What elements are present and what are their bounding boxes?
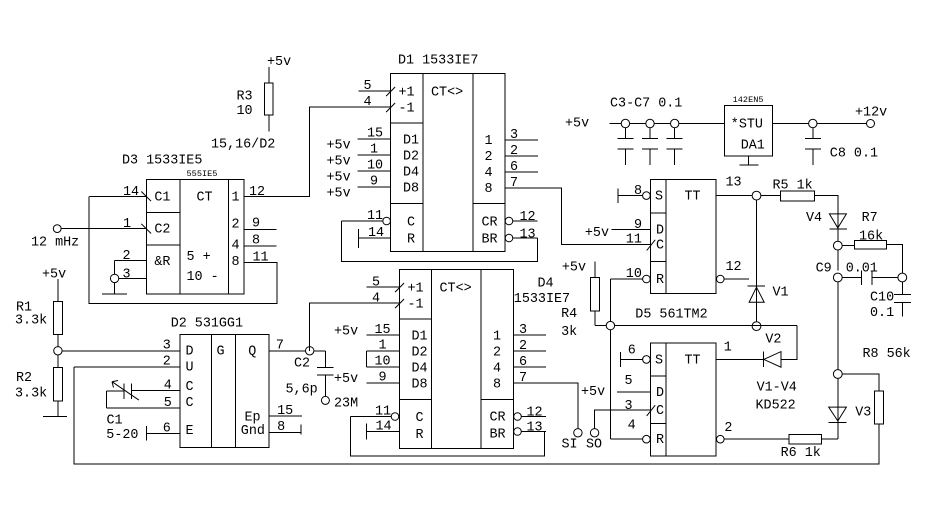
- svg-text:CT<>: CT<>: [431, 86, 463, 101]
- D1 output 3 wire: [505, 139, 538, 141]
- svg-text:D4: D4: [412, 361, 428, 376]
- D5.1 pin 8 S input: [618, 188, 643, 203]
- D4 pin 12 CR output: [514, 413, 522, 421]
- capacitor C3: [621, 119, 629, 127]
- svg-text:-1: -1: [408, 298, 424, 313]
- svg-text:2: 2: [485, 150, 493, 165]
- ground: [43, 415, 67, 417]
- node junction C8: [809, 119, 817, 127]
- trimmer arrow: [112, 381, 139, 401]
- D5.1 pin 10 R input: [610, 278, 642, 280]
- resistor R6 1k: [789, 435, 822, 444]
- svg-text:V1: V1: [773, 286, 789, 301]
- svg-text:7: 7: [510, 176, 518, 191]
- D3 output 8 wire: [244, 245, 277, 247]
- svg-text:4: 4: [164, 379, 172, 394]
- svg-text:10: 10: [626, 267, 642, 282]
- svg-text:12: 12: [726, 260, 742, 275]
- svg-text:R3: R3: [237, 90, 253, 105]
- svg-text:6: 6: [519, 355, 527, 370]
- node junction 13/V1: [752, 191, 761, 200]
- svg-text:R: R: [656, 433, 664, 448]
- svg-text:D2: D2: [412, 345, 428, 360]
- svg-text:*STU: *STU: [731, 118, 763, 133]
- svg-text:C1: C1: [107, 414, 123, 429]
- svg-text:3.3k: 3.3k: [15, 314, 47, 329]
- wire V4 node down to R8 node: [837, 282, 839, 407]
- svg-text:6: 6: [163, 422, 171, 437]
- svg-text:1: 1: [493, 330, 501, 345]
- svg-text:8: 8: [634, 184, 642, 199]
- svg-text:U: U: [186, 361, 194, 376]
- svg-text:+5v: +5v: [42, 268, 66, 283]
- svg-text:D: D: [656, 224, 664, 239]
- svg-text:-1: -1: [399, 102, 415, 117]
- node junction V1 bottom: [752, 322, 761, 331]
- svg-text:R4: R4: [561, 307, 577, 322]
- svg-text:15: 15: [367, 127, 383, 142]
- svg-text:R: R: [416, 428, 424, 443]
- svg-text:D1: D1: [403, 133, 419, 148]
- svg-text:4: 4: [372, 292, 380, 307]
- svg-text:12: 12: [527, 406, 543, 421]
- capacitor C4: [646, 119, 654, 127]
- DA1 ground pin: [740, 156, 759, 165]
- svg-text:+1: +1: [399, 86, 415, 101]
- svg-text:+12v: +12v: [855, 106, 887, 121]
- svg-text:2: 2: [493, 346, 501, 361]
- D3 pin 14 C1 input wire: [90, 195, 147, 197]
- D4 output 3 wire: [514, 334, 547, 336]
- svg-text:D3 1533IE5: D3 1533IE5: [122, 154, 202, 169]
- D3 pin 3 wire: [115, 277, 147, 279]
- svg-text:Gnd: Gnd: [241, 424, 265, 439]
- capacitor C8 0.1: [805, 128, 821, 165]
- D4 pin 5 +1 input: [367, 286, 400, 288]
- svg-text:9: 9: [370, 175, 378, 190]
- wire R5 to V4: [814, 196, 838, 214]
- svg-text:+5v: +5v: [327, 139, 351, 154]
- svg-text:5: 5: [164, 396, 172, 411]
- wire R6 to V3: [822, 438, 838, 440]
- svg-text:D1 1533IE7: D1 1533IE7: [398, 54, 478, 69]
- resistor R1 3.3k: [54, 301, 63, 334]
- wire to R8: [842, 374, 879, 391]
- wire R1/R2 node to D2 pin 3: [62, 350, 180, 352]
- resistor R8 56k: [875, 391, 884, 424]
- diode V3: [829, 407, 847, 421]
- resistor R3 10: [265, 83, 273, 115]
- svg-text:C1: C1: [154, 191, 170, 206]
- D3 output 9 wire: [244, 229, 277, 231]
- svg-text:G: G: [217, 345, 225, 360]
- svg-text:5: 5: [625, 374, 633, 389]
- wire: [594, 262, 596, 278]
- D4 pin 13 BR output: [514, 428, 522, 436]
- terminal +12v: [867, 120, 875, 128]
- D3 pin 1 C2 input wire: [61, 228, 147, 230]
- wire: [268, 115, 270, 131]
- svg-text:1: 1: [379, 339, 387, 354]
- resistor R5 1k: [780, 191, 814, 201]
- wire: [57, 279, 59, 301]
- flip-flop D5.1 (upper): [651, 180, 717, 294]
- svg-text:D4: D4: [538, 277, 554, 292]
- svg-text:SI: SI: [562, 438, 578, 453]
- svg-text:C2: C2: [294, 357, 310, 372]
- svg-text:KD522: KD522: [756, 399, 796, 414]
- D2 pin 15 Ep wire: [269, 415, 302, 417]
- svg-text:E: E: [186, 424, 194, 439]
- svg-text:2: 2: [519, 339, 527, 354]
- dynamic input slash: [647, 240, 656, 251]
- D1 pin 13 BR output: [505, 234, 513, 242]
- svg-text:R7: R7: [862, 211, 878, 226]
- svg-text:8: 8: [252, 234, 260, 249]
- terminal SO: [590, 429, 598, 437]
- D3 output 11 feedback wire to C1: [89, 196, 277, 303]
- D5.1 pin 9 D input: [612, 229, 651, 231]
- svg-text:C3-C7 0.1: C3-C7 0.1: [610, 97, 682, 112]
- svg-text:8: 8: [232, 255, 240, 270]
- terminal 12 mHz: [53, 225, 61, 233]
- node junction R8: [833, 370, 842, 379]
- wire: [837, 229, 839, 270]
- svg-text:6: 6: [510, 160, 518, 175]
- node junction R1/R2: [54, 347, 62, 355]
- svg-text:SO: SO: [586, 438, 602, 453]
- svg-text:+5v: +5v: [585, 226, 609, 241]
- svg-text:R: R: [656, 273, 664, 288]
- svg-text:V4: V4: [806, 211, 822, 226]
- D4 pin 1 D2 input: [367, 350, 400, 352]
- D1 pin 12 CR output: [505, 217, 513, 225]
- D2 pin 2 wire to bottom rail: [74, 367, 879, 464]
- svg-text:9: 9: [252, 217, 260, 232]
- svg-text:+5v: +5v: [334, 325, 358, 340]
- D1 output 7 wire to D5 C input: [505, 188, 651, 245]
- svg-text:2: 2: [510, 144, 518, 159]
- diode V2: [762, 352, 764, 368]
- wire V2 to R-pull rail: [595, 311, 797, 359]
- node junction R4 rail: [606, 321, 614, 329]
- svg-text:V2: V2: [765, 333, 781, 348]
- svg-text:+5v: +5v: [267, 55, 291, 70]
- wire to R7: [842, 245, 854, 247]
- svg-text:Q: Q: [248, 345, 256, 360]
- svg-text:5: 5: [364, 79, 372, 94]
- svg-text:1: 1: [724, 341, 732, 356]
- svg-text:3: 3: [510, 128, 518, 143]
- svg-text:+5v: +5v: [581, 385, 605, 400]
- dynamic input slash: [141, 192, 151, 202]
- D2 pin 7 Q output wire: [269, 350, 325, 352]
- wire SO to D5 pin 3 C input: [595, 410, 651, 429]
- flip-flop D5.2 (lower): [651, 343, 717, 456]
- svg-text:C9: C9: [816, 262, 832, 277]
- dynamic input slash: [141, 224, 151, 234]
- dynamic input slash: [647, 405, 656, 416]
- D5.2 pin 5 D input: [617, 391, 651, 393]
- svg-text:14: 14: [376, 420, 392, 435]
- svg-text:C2: C2: [154, 223, 170, 238]
- capacitor C10 0.1: [894, 295, 911, 317]
- svg-text:5,6p: 5,6p: [286, 383, 318, 398]
- svg-text:C: C: [407, 215, 415, 230]
- svg-text:D2 531GG1: D2 531GG1: [171, 317, 243, 332]
- D1 pin 9 D8 input: [358, 186, 391, 188]
- svg-text:+5v: +5v: [327, 155, 351, 170]
- svg-text:2: 2: [724, 421, 732, 436]
- svg-text:D: D: [186, 345, 194, 360]
- svg-text:+5v: +5v: [334, 372, 358, 387]
- D4 output 2 wire: [514, 350, 547, 352]
- wire DA1 output: [773, 123, 867, 125]
- svg-text:D5 561TM2: D5 561TM2: [635, 308, 707, 323]
- resistor R7 16k: [854, 241, 886, 249]
- svg-text:11: 11: [375, 405, 391, 420]
- D5.2 pin 6 S input: [620, 352, 642, 367]
- svg-text:4: 4: [485, 166, 493, 181]
- D1 pin 1 D2 input: [358, 154, 391, 156]
- svg-text:2: 2: [232, 218, 240, 233]
- svg-text:2: 2: [163, 355, 171, 370]
- diode V4: [829, 214, 846, 228]
- svg-text:15: 15: [277, 404, 293, 419]
- svg-text:CR: CR: [490, 411, 506, 426]
- resistor R2 3.3k: [54, 368, 63, 401]
- D4 pin 10 D4 input: [367, 366, 400, 368]
- terminal SI: [574, 429, 582, 437]
- svg-text:5 +: 5 +: [187, 250, 211, 265]
- svg-text:11: 11: [253, 251, 269, 266]
- svg-text:14: 14: [368, 226, 384, 241]
- D4 pin 14 R input: [367, 424, 400, 440]
- D2 pin 6 wire: [147, 426, 181, 440]
- svg-text:BR: BR: [482, 232, 498, 247]
- svg-text:3: 3: [625, 399, 633, 414]
- D3 pin 2 wire: [115, 259, 147, 261]
- svg-text:16k: 16k: [859, 230, 883, 245]
- svg-text:C: C: [656, 404, 664, 419]
- node junction Q / D4 pin4: [306, 347, 314, 355]
- svg-text:DA1: DA1: [741, 139, 765, 154]
- svg-text:14: 14: [123, 185, 139, 200]
- dynamic input slash: [395, 299, 404, 308]
- svg-text:TT: TT: [685, 353, 701, 368]
- svg-text:7: 7: [519, 371, 527, 386]
- svg-text:R2: R2: [16, 371, 32, 386]
- svg-text:R6 1k: R6 1k: [781, 446, 821, 461]
- svg-text:D8: D8: [403, 181, 419, 196]
- terminal 23M: [321, 396, 329, 404]
- D1 output 6 wire: [505, 171, 538, 173]
- D1 pin 15 D1 input: [358, 138, 391, 140]
- svg-text:142EN5: 142EN5: [733, 95, 764, 105]
- D2 pin 8 Gnd wire: [269, 424, 301, 434]
- D1 output 2 wire: [505, 155, 538, 157]
- svg-text:13: 13: [527, 421, 543, 436]
- capacitor C5: [671, 119, 679, 127]
- svg-text:0.1: 0.1: [870, 306, 894, 321]
- svg-text:11: 11: [626, 233, 642, 248]
- wire R8 bottom to rail: [878, 424, 880, 464]
- svg-text:10: 10: [237, 104, 253, 119]
- node junction V4/R7: [833, 241, 842, 250]
- resistor R4 3k: [590, 277, 599, 311]
- wire pins 2-3 tie: [114, 260, 116, 294]
- svg-text:4: 4: [493, 362, 501, 377]
- svg-text:12: 12: [520, 210, 536, 225]
- D4 pin 9 D8 input: [367, 382, 400, 384]
- svg-text:1: 1: [123, 217, 131, 232]
- svg-text:4: 4: [232, 239, 240, 254]
- svg-text:6: 6: [628, 344, 636, 359]
- svg-text:9: 9: [634, 218, 642, 233]
- wire +5v rail: [610, 123, 725, 125]
- svg-text:S: S: [655, 353, 663, 368]
- wire: [57, 335, 59, 368]
- svg-text:15,16/D2: 15,16/D2: [211, 138, 275, 153]
- svg-text:15: 15: [375, 323, 391, 338]
- D1 pin 11 C input with bubble, loop to BR pin 13: [342, 221, 538, 262]
- node junction pin3: [110, 274, 118, 282]
- svg-text:TT: TT: [685, 190, 701, 205]
- svg-text:7: 7: [276, 339, 284, 354]
- svg-text:+5v: +5v: [327, 171, 351, 186]
- ground: [102, 293, 127, 295]
- svg-text:3: 3: [123, 268, 131, 283]
- svg-text:8: 8: [485, 182, 493, 197]
- svg-text:C: C: [186, 380, 194, 395]
- D1 pin 14 R input: [359, 229, 391, 248]
- svg-text:C8 0.1: C8 0.1: [830, 147, 878, 162]
- wire Q node up to D4 pin 4: [310, 303, 400, 351]
- svg-text:1: 1: [485, 134, 493, 149]
- svg-text:C10: C10: [870, 291, 894, 306]
- svg-text:9: 9: [379, 371, 387, 386]
- svg-text:555IE5: 555IE5: [187, 169, 218, 179]
- svg-text:R8 56k: R8 56k: [863, 347, 911, 362]
- svg-text:CR: CR: [482, 215, 498, 230]
- D4 pin 15 D1 input: [367, 334, 400, 336]
- D4 pin 11 C input with bubble, loop to BR pin 13: [350, 417, 544, 457]
- D5.2 pin 2 /Q output: [717, 435, 725, 443]
- svg-text:2: 2: [123, 249, 131, 264]
- svg-text:11: 11: [367, 209, 383, 224]
- svg-text:12: 12: [249, 185, 265, 200]
- svg-text:1: 1: [370, 143, 378, 158]
- svg-text:C: C: [186, 396, 194, 411]
- capacitor C2 5,6p: [317, 351, 334, 397]
- D1 pin 4 -1 input: [310, 106, 391, 108]
- svg-text:8: 8: [493, 378, 501, 393]
- svg-text:C: C: [656, 239, 664, 254]
- D5.2 pin 1 Q output to V2: [716, 358, 763, 360]
- svg-text:D8: D8: [412, 377, 428, 392]
- svg-text:13: 13: [726, 176, 742, 191]
- svg-text:+5v: +5v: [565, 117, 589, 132]
- wire pins 1-10 tie: [366, 351, 368, 367]
- D4 output 7 wire to SI terminal: [514, 383, 578, 429]
- wire R pins rail (pin10 to pin4): [609, 279, 611, 439]
- svg-text:3: 3: [163, 339, 171, 354]
- dynamic input slash: [386, 103, 395, 112]
- svg-text:1533IE7: 1533IE7: [514, 292, 570, 307]
- svg-text:R: R: [407, 232, 415, 247]
- wire R7 to C9/C10 column: [887, 245, 903, 295]
- svg-text:CT<>: CT<>: [440, 282, 472, 297]
- svg-text:10: 10: [367, 159, 383, 174]
- svg-text:+5v: +5v: [562, 261, 586, 276]
- diode V1: [748, 200, 765, 286]
- svg-text:4: 4: [364, 95, 372, 110]
- svg-text:BR: BR: [490, 428, 506, 443]
- svg-text:D1: D1: [412, 329, 428, 344]
- svg-text:D4: D4: [403, 165, 419, 180]
- svg-text:12 mHz: 12 mHz: [31, 236, 79, 251]
- D5.2 pin 4 R input: [610, 438, 642, 440]
- svg-text:C: C: [416, 411, 424, 426]
- wire: [57, 401, 59, 416]
- svg-text:V3: V3: [855, 406, 871, 421]
- svg-text:R5 1k: R5 1k: [773, 179, 813, 194]
- svg-text:CT: CT: [197, 191, 213, 206]
- D1 pin 5 +1 input: [359, 90, 391, 92]
- svg-text:0.01: 0.01: [846, 262, 878, 277]
- D1 pin 10 D4 input: [358, 170, 391, 172]
- svg-text:5: 5: [372, 276, 380, 291]
- svg-text:13: 13: [520, 228, 536, 243]
- svg-text:3k: 3k: [561, 325, 577, 340]
- svg-text:+1: +1: [408, 282, 424, 297]
- svg-text:S: S: [655, 190, 663, 205]
- D4 output 6 wire: [514, 366, 547, 368]
- svg-text:V1-V4: V1-V4: [757, 381, 797, 396]
- D5.1 pin 13 Q output: [716, 195, 780, 197]
- capacitor C1 5-20 trimmer: [132, 390, 181, 392]
- wire: [268, 67, 270, 83]
- svg-text:23M: 23M: [334, 397, 358, 412]
- svg-text:+5v: +5v: [327, 187, 351, 202]
- dynamic input slash: [386, 87, 395, 96]
- D3 output 12 wire to D1 pin 4: [244, 107, 391, 196]
- svg-text:1: 1: [232, 191, 240, 206]
- capacitor C9 0.01: [842, 271, 898, 285]
- svg-text:D: D: [656, 386, 664, 401]
- svg-text:8: 8: [277, 420, 285, 435]
- svg-text:D2: D2: [403, 149, 419, 164]
- D5.1 pin 12 /Q output: [717, 275, 725, 283]
- svg-text:5-20: 5-20: [106, 428, 138, 443]
- svg-text:3.3k: 3.3k: [15, 387, 47, 402]
- svg-text:10 -: 10 -: [187, 270, 219, 285]
- svg-text:3: 3: [519, 323, 527, 338]
- svg-text:10: 10: [375, 355, 391, 370]
- svg-text:4: 4: [628, 419, 636, 434]
- svg-text:&R: &R: [154, 255, 170, 270]
- dynamic input slash: [395, 283, 404, 292]
